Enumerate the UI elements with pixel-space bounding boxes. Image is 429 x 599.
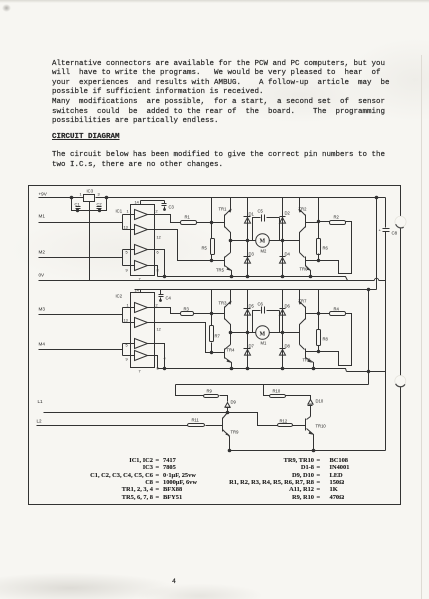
svg-text:IC1: IC1 <box>116 209 123 214</box>
wire IC1 pin14 to +9V <box>140 201 142 205</box>
capacitor C2 <box>97 207 102 211</box>
svg-text:R9: R9 <box>207 389 213 394</box>
node +9V rail <box>39 197 386 199</box>
svg-text:M2: M2 <box>261 249 267 254</box>
motor M2 <box>256 234 270 248</box>
svg-text:7: 7 <box>139 278 141 282</box>
svg-text:6: 6 <box>157 251 159 255</box>
wire TR8 base loop from R4 <box>306 314 352 366</box>
svg-text:C4: C4 <box>166 296 172 301</box>
svg-text:1: 1 <box>127 210 129 214</box>
svg-text:13: 13 <box>124 319 128 323</box>
svg-text:R8: R8 <box>323 337 329 342</box>
svg-text:L1: L1 <box>38 399 44 404</box>
wire TR6 base loop from R2 <box>306 222 352 274</box>
svg-text:14: 14 <box>135 289 139 293</box>
svg-text:7: 7 <box>139 370 141 374</box>
svg-text:M4: M4 <box>39 342 46 347</box>
svg-text:C1: C1 <box>75 202 81 207</box>
wire TR9 collector to R12 <box>228 413 278 426</box>
capacitor C8 electrolytic <box>383 198 390 451</box>
svg-text:D4: D4 <box>285 252 291 257</box>
svg-text:TR4: TR4 <box>227 348 236 353</box>
svg-text:9: 9 <box>126 358 128 362</box>
resistor R7 <box>211 314 213 353</box>
resistor R4 <box>330 312 346 316</box>
wire section1 emitter bus <box>158 277 348 281</box>
svg-text:D3: D3 <box>249 252 255 257</box>
svg-text:C6: C6 <box>258 302 264 307</box>
resistor R6 <box>318 198 320 261</box>
svg-text:TR1: TR1 <box>219 207 228 212</box>
svg-text:D5: D5 <box>249 304 255 309</box>
svg-text:12: 12 <box>157 236 161 240</box>
svg-text:R7: R7 <box>215 334 221 339</box>
paragraph 2 <box>52 151 385 170</box>
wire decoupling loop under IC3 <box>72 198 107 211</box>
svg-text:R3: R3 <box>184 307 190 312</box>
resistor R9 <box>176 385 228 402</box>
capacitor C4 <box>159 290 164 301</box>
page number <box>172 577 176 587</box>
svg-text:1: 1 <box>80 193 82 197</box>
wire IC1 pin2 output to R1 <box>147 215 181 223</box>
resistor R12 <box>278 424 293 427</box>
node A motor rail 1 <box>231 240 300 242</box>
wire emitter return bus <box>230 450 386 452</box>
svg-text:R2: R2 <box>334 215 340 220</box>
wire IC1 pin8 output down to bus <box>147 266 158 277</box>
svg-text:M: M <box>260 239 266 245</box>
wire rail2 drop to junction <box>211 290 213 314</box>
border frame of diagram <box>29 186 401 505</box>
svg-text:C8: C8 <box>392 231 398 236</box>
wire IC2 pin4 output down to bus <box>147 344 165 369</box>
svg-text:R6: R6 <box>323 246 329 251</box>
svg-text:2: 2 <box>156 210 158 214</box>
wire IC2 pin14 <box>140 290 142 293</box>
resistor R11 <box>188 424 205 427</box>
wire right feed drop <box>368 290 370 385</box>
svg-text:C2: C2 <box>97 202 103 207</box>
node L1 junction <box>226 411 229 414</box>
wire IC2 pin8 output down to bus <box>147 356 158 369</box>
parts list left column <box>20 457 153 464</box>
svg-text:+9V: +9V <box>39 192 48 197</box>
svg-text:R4: R4 <box>334 307 340 312</box>
paragraph 1 <box>52 60 390 127</box>
svg-text:2: 2 <box>156 304 158 308</box>
svg-text:D6: D6 <box>285 304 291 309</box>
svg-text:C5: C5 <box>258 209 264 214</box>
hole punch top <box>395 216 406 227</box>
svg-text:C3: C3 <box>169 205 175 210</box>
svg-text:M: M <box>260 332 266 338</box>
svg-text:R1: R1 <box>185 215 191 220</box>
svg-text:5: 5 <box>126 251 128 255</box>
wire M1 input bracket <box>123 215 135 230</box>
resistor R10 <box>264 385 311 400</box>
heading <box>52 133 120 143</box>
wire bus2 tail to C8 line <box>347 371 386 373</box>
wire IC1 pin12 output to TR5 base <box>147 230 225 261</box>
svg-text:M1: M1 <box>39 214 46 219</box>
wire LED supply bus <box>176 384 369 386</box>
svg-text:5: 5 <box>126 344 128 348</box>
resistor R3 <box>181 312 194 316</box>
svg-text:D9: D9 <box>231 400 237 405</box>
svg-text:3: 3 <box>98 193 100 197</box>
svg-text:TR3: TR3 <box>219 301 228 306</box>
svg-text:M2: M2 <box>39 250 46 255</box>
wire M3 input bracket <box>123 308 135 323</box>
svg-text:IC2: IC2 <box>116 294 123 299</box>
wire R1 to junction <box>197 222 225 224</box>
regulator IC3 <box>84 195 95 202</box>
svg-text:TR9: TR9 <box>231 430 240 435</box>
svg-text:L2: L2 <box>37 418 43 423</box>
svg-text:IC3: IC3 <box>87 189 94 194</box>
svg-text:TR5: TR5 <box>216 268 225 273</box>
svg-text:13: 13 <box>124 226 128 230</box>
wire +9V drop to junction <box>211 198 213 223</box>
svg-text:12: 12 <box>157 328 161 332</box>
wire IC3 ground drop to 0V <box>89 202 91 281</box>
node 0V lower rail to section 2 <box>135 198 377 290</box>
capacitor C1 <box>76 207 81 211</box>
motor M1 <box>256 326 270 340</box>
svg-text:0V: 0V <box>39 273 46 278</box>
svg-text:M1: M1 <box>261 341 267 346</box>
node B motor rail 2 <box>231 332 300 334</box>
resistor R5 <box>211 223 213 261</box>
op-amp U2 buffer block IC2 <box>131 293 155 368</box>
svg-text:D1: D1 <box>249 212 255 217</box>
wire M4 input bracket <box>123 344 135 356</box>
resistor R1 <box>181 221 197 225</box>
svg-text:TR10: TR10 <box>316 424 327 429</box>
wire IC1 pin6 output down to bus <box>147 250 165 277</box>
svg-text:R12: R12 <box>280 419 288 424</box>
wire IC2 pin12 output to TR4 base <box>147 323 225 353</box>
svg-text:D2: D2 <box>285 211 291 216</box>
svg-text:9: 9 <box>126 269 128 273</box>
svg-text:1: 1 <box>127 304 129 308</box>
wire section2 emitter bus <box>158 369 347 372</box>
svg-text:R5: R5 <box>202 246 208 251</box>
capacitor C3 <box>141 201 167 210</box>
svg-text:+: + <box>379 228 382 233</box>
svg-text:M3: M3 <box>39 307 46 312</box>
resistor R2 <box>330 221 346 225</box>
svg-text:D8: D8 <box>285 344 291 349</box>
parts list right column <box>180 457 314 464</box>
wire R3 to junction <box>194 313 225 315</box>
wire IC2 pin2 output to R3 <box>147 308 181 314</box>
svg-text:14: 14 <box>135 201 139 205</box>
svg-text:R11: R11 <box>192 418 200 423</box>
svg-text:D7: D7 <box>249 344 255 349</box>
svg-text:R10: R10 <box>273 389 281 394</box>
op-amp U1 buffer block IC1 <box>131 205 155 276</box>
wire M2 input bracket <box>123 250 135 266</box>
svg-text:D10: D10 <box>316 399 324 404</box>
hole punch bottom <box>395 376 406 387</box>
resistor R8 <box>318 290 320 352</box>
